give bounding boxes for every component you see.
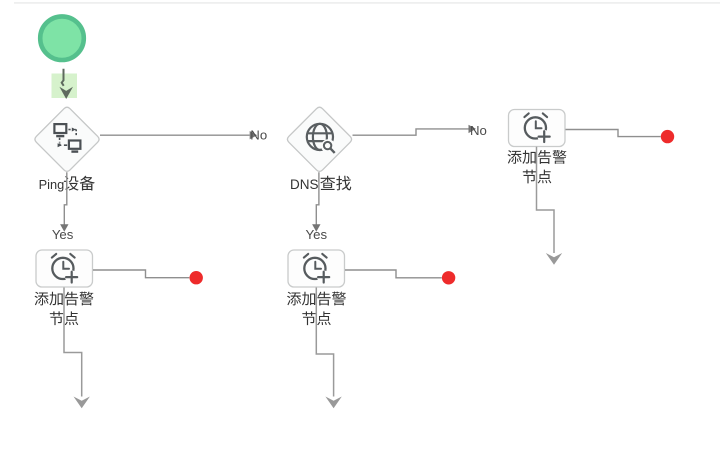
wire: node3 dangling south arrow <box>537 147 555 253</box>
icon: alarm clock plus <box>524 113 551 143</box>
icon: two computers (ping) <box>54 124 80 152</box>
icon: alarm clock plus <box>52 254 79 284</box>
label 添加告警 节点 <box>508 150 522 164</box>
wire: node2 dangling south arrow <box>316 288 333 397</box>
decision node: Ping <box>35 107 99 171</box>
wire: DNS -> Yes (south, with jog) <box>316 172 319 225</box>
label 添加告警 节点 <box>35 292 49 306</box>
start node <box>40 16 84 60</box>
start arrow <box>62 69 64 86</box>
wire: Ping -> No (east) <box>100 134 250 136</box>
svg-text:DNS: DNS <box>290 177 319 192</box>
red dot 1 <box>190 271 203 284</box>
wire: node2 -> red dot <box>345 270 442 278</box>
red dot 2 <box>442 271 455 284</box>
wire: node3 -> red dot <box>566 130 661 137</box>
svg-text:No: No <box>470 123 487 138</box>
wire: DNS -> No (east, with jog) <box>353 129 469 135</box>
red dot 3 <box>661 130 674 143</box>
svg-text:Ping: Ping <box>39 177 65 192</box>
svg-text:Yes: Yes <box>52 227 74 242</box>
wire: node1 dangling south arrow <box>64 288 82 397</box>
wire: node1 -> red dot <box>93 270 189 278</box>
top border <box>14 2 720 4</box>
task node: add alarm <box>36 250 93 287</box>
icon: globe with magnifier <box>307 124 335 153</box>
task node: add alarm <box>509 110 566 147</box>
icon: alarm clock plus <box>304 254 331 284</box>
svg-text:Yes: Yes <box>306 227 328 242</box>
task node: add alarm <box>288 250 345 287</box>
start node highlight <box>52 74 78 99</box>
decision node: DNS <box>287 107 351 171</box>
label 添加告警 节点 <box>287 292 301 306</box>
wire: Ping -> Yes (south, with jog) <box>64 172 67 225</box>
svg-text:No: No <box>250 128 267 143</box>
